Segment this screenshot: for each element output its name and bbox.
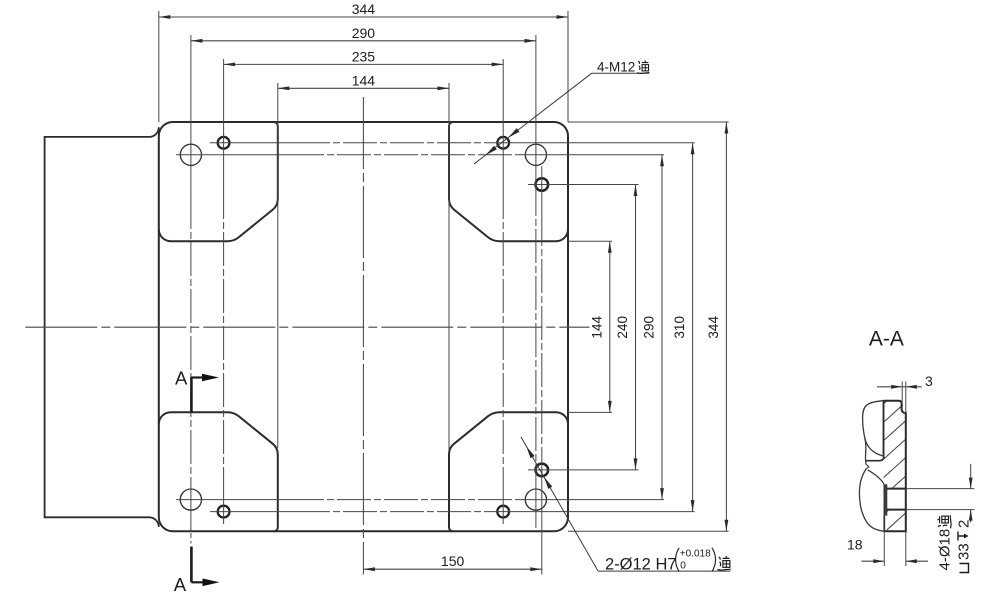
svg-text:235: 235 — [352, 48, 376, 64]
dimension 310 right — [692, 143, 694, 512]
left flange — [45, 127, 159, 527]
ext vertical plate left edge x=158.8 — [158, 11, 160, 122]
centerline horizontal through bottom M12 y=511.6 — [210, 511, 296, 513]
svg-text:290: 290 — [642, 316, 657, 339]
hole M12 tapped top-right — [497, 137, 509, 149]
svg-text:344: 344 — [352, 1, 376, 17]
svg-text:290: 290 — [352, 25, 376, 41]
svg-text:240: 240 — [615, 316, 630, 339]
dimension 344 right — [725, 122, 727, 531]
pad top-right — [449, 122, 568, 241]
dimension 150 bottom — [363, 568, 541, 570]
section front face below hole — [883, 516, 885, 532]
svg-text:0: 0 — [680, 560, 686, 571]
svg-text:+0.018: +0.018 — [680, 548, 711, 559]
ext horizontal plate top edge y=122 — [568, 121, 729, 123]
pad bottom-left — [159, 412, 278, 531]
centerline/ext vertical through D12 holes x=541.8 — [541, 166, 543, 212]
svg-text:344: 344 — [706, 316, 721, 339]
pad top-left — [159, 122, 278, 241]
svg-text:150: 150 — [441, 553, 465, 569]
section cut marker A top — [190, 377, 193, 412]
ext vertical plate right edge x=568 — [567, 11, 569, 122]
section hole wall bottom — [887, 509, 906, 511]
svg-text:310: 310 — [672, 316, 687, 339]
ext vertical pad inner edge x=449.0 — [448, 83, 450, 450]
section boss curve upper — [865, 438, 884, 457]
dimension 344 top — [159, 16, 568, 18]
dimension 290 top — [191, 40, 536, 42]
main horizontal centerline — [25, 326, 589, 328]
svg-text:33: 33 — [956, 543, 973, 560]
section pad front face — [883, 401, 885, 457]
ext horizontal through top D12 y=184.5 — [528, 184, 639, 186]
hole D18 counterbore bottom-left — [180, 489, 201, 510]
svg-text:2: 2 — [956, 520, 973, 528]
centerline horizontal through top D18 y=154.8 — [176, 154, 290, 156]
dimension 144 right — [609, 241, 611, 412]
pad bottom-right — [449, 412, 568, 531]
section counterbore floor — [884, 484, 888, 515]
svg-text:A: A — [175, 367, 188, 388]
ext horizontal pad top edge y=412.4 — [568, 411, 612, 413]
centerline horizontal through bottom D18 y=499.6 — [176, 499, 290, 501]
svg-text:4-Ø18: 4-Ø18 — [937, 529, 954, 571]
section cut marker A bottom — [190, 547, 193, 583]
svg-text:A-A: A-A — [869, 327, 904, 350]
svg-text:144: 144 — [352, 72, 376, 88]
hole D12H7 dowel top-right — [536, 178, 549, 191]
ext horizontal plate bottom edge y=531.3 — [568, 530, 729, 532]
centerline/ext vertical through left D18 holes x=190.9 — [190, 35, 192, 195]
hole D18 counterbore top-left — [180, 144, 201, 165]
dimension 290 right — [661, 155, 663, 500]
hole M12 tapped bottom-right — [497, 506, 509, 518]
hole D18 counterbore bottom-right — [525, 489, 546, 510]
dimension 144 top — [278, 87, 449, 89]
ext horizontal through bottom D12 y=469.9 — [528, 469, 639, 471]
svg-text:4-M12: 4-M12 — [597, 59, 635, 74]
section hole wall top — [887, 488, 906, 490]
section boss curve lower — [868, 470, 884, 484]
svg-text:144: 144 — [589, 316, 604, 339]
main vertical centerline — [362, 97, 364, 575]
svg-text:A: A — [174, 574, 187, 593]
dimension 240 right — [635, 185, 637, 470]
centerline/ext vertical through left M12 holes x=223.6 — [223, 59, 225, 185]
svg-text:2-Ø12 H7: 2-Ø12 H7 — [605, 555, 677, 573]
section hatch — [604, 375, 997, 593]
hole D18 counterbore top-right — [525, 144, 546, 165]
centerline/ext vertical through right M12 holes x=503.2 — [502, 59, 504, 185]
section boss line horizontal — [866, 457, 884, 461]
dimension 3 section top — [877, 386, 922, 388]
leader and label 4-M12 through — [474, 73, 592, 164]
svg-text:18: 18 — [847, 537, 863, 553]
callout 4-D18 through, cbore 33 depth 2 — [906, 488, 975, 490]
hole D12H7 dowel bottom-right — [536, 464, 549, 477]
section break line left — [863, 401, 884, 465]
plate outline — [159, 122, 568, 531]
svg-text:3: 3 — [925, 373, 933, 389]
section outline — [883, 401, 905, 532]
dimension 18 section bottom — [883, 531, 885, 566]
hole M12 tapped bottom-left — [218, 506, 230, 518]
leader and label 2-D12 H7 +0.018/0 through — [521, 437, 598, 571]
centerline/ext vertical through right D18 holes x=535.9 — [535, 35, 537, 182]
ext vertical pad inner edge x=277.8 — [277, 83, 279, 448]
centerline horizontal through top M12 y=142.8 — [210, 142, 296, 144]
dimension 235 top — [224, 63, 504, 65]
ext horizontal pad bottom edge y=241.2 — [568, 240, 612, 242]
hole M12 tapped top-left — [218, 137, 230, 149]
